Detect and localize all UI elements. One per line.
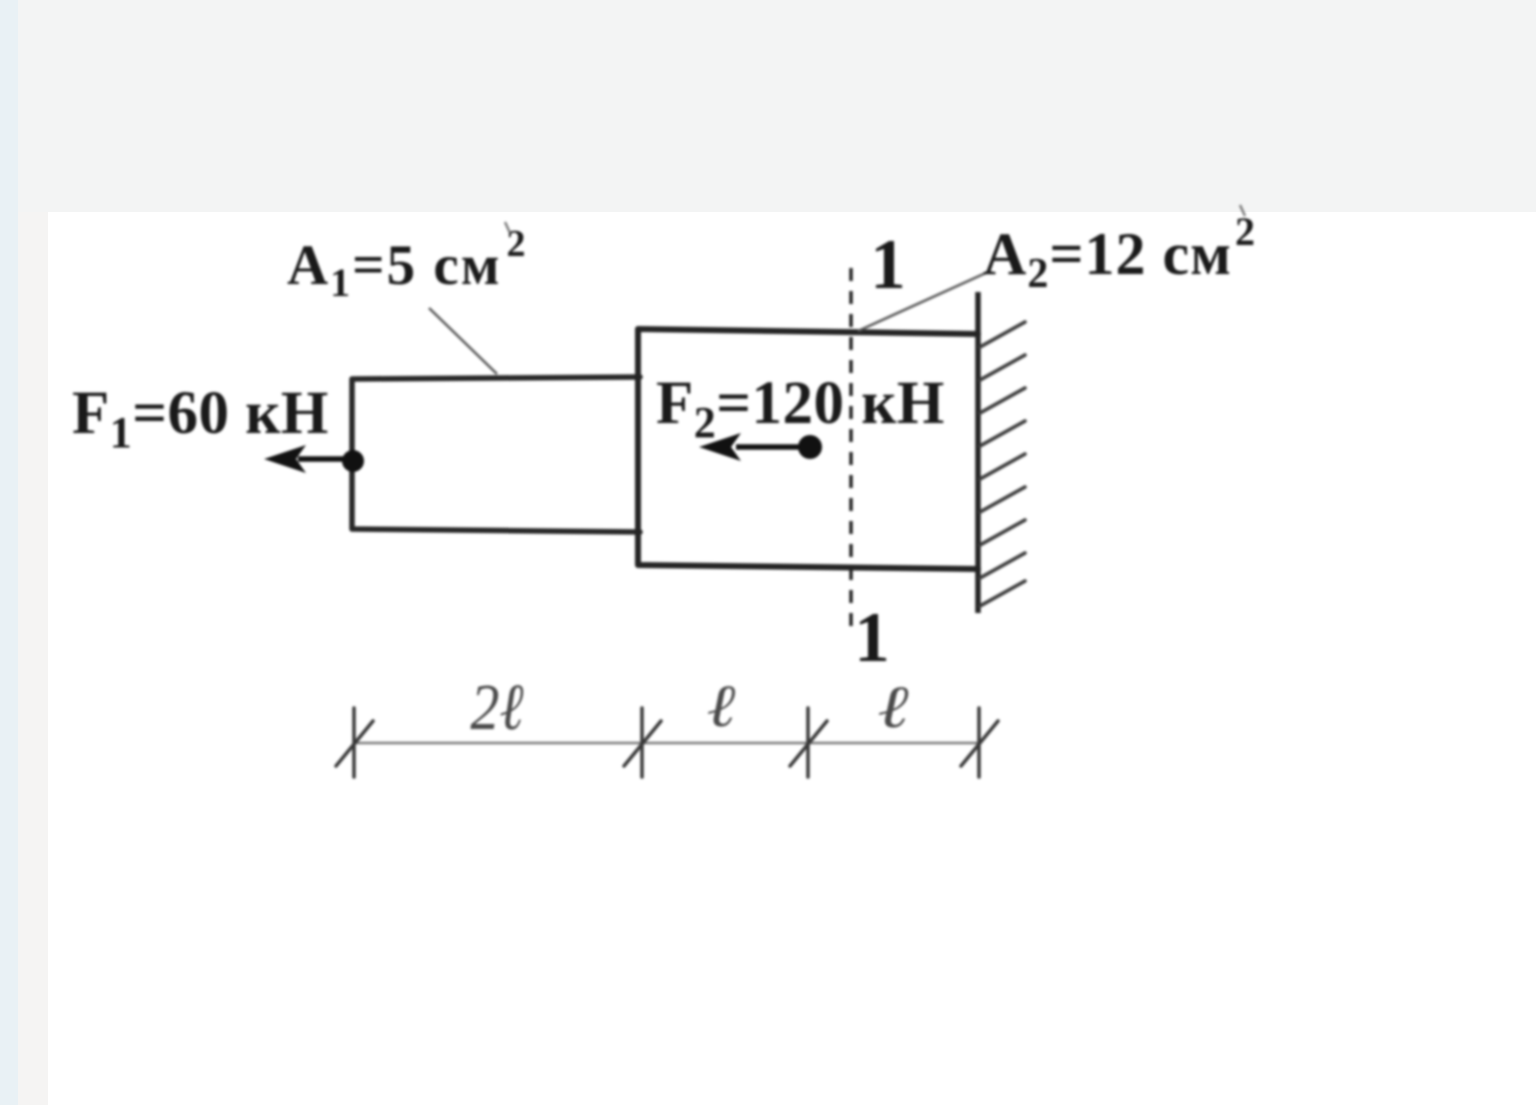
svg-text:A2=12 см2: A2=12 см2	[983, 209, 1256, 297]
force F1 arrow	[264, 445, 364, 473]
force F2 arrow	[699, 433, 822, 461]
bar step 1 outline (small rectangle A1)	[352, 377, 640, 532]
dimension tick 1	[336, 708, 373, 777]
dimension tick 2	[624, 708, 661, 777]
left gray column	[18, 212, 48, 1105]
section line 1-1 (dashed)	[849, 268, 853, 627]
prime mark above A2 superscript	[1240, 205, 1245, 216]
svg-text:ℓ: ℓ	[877, 673, 908, 740]
leader line to A2 label	[858, 272, 988, 331]
prime mark above A1 superscript	[505, 222, 510, 233]
top gray band	[18, 0, 1536, 212]
svg-text:F1=60 кН: F1=60 кН	[72, 380, 329, 457]
svg-text:1: 1	[870, 226, 906, 304]
svg-text:ℓ: ℓ	[707, 672, 736, 739]
dimension line	[354, 742, 979, 744]
wall hatching	[980, 322, 1025, 606]
svg-text:2ℓ: 2ℓ	[470, 672, 523, 744]
svg-text:F2=120 кН: F2=120 кН	[656, 370, 945, 447]
leader line to A1 label	[429, 308, 497, 374]
left pale blue strip	[0, 0, 18, 1105]
wall line (fixed support)	[975, 292, 981, 613]
bar step 2 outline (large rectangle A2)	[638, 329, 978, 569]
dimension tick 3	[790, 708, 827, 777]
svg-text:A1=5 см2: A1=5 см2	[287, 223, 528, 305]
dimension tick 4	[961, 708, 998, 777]
svg-text:1: 1	[854, 599, 890, 677]
